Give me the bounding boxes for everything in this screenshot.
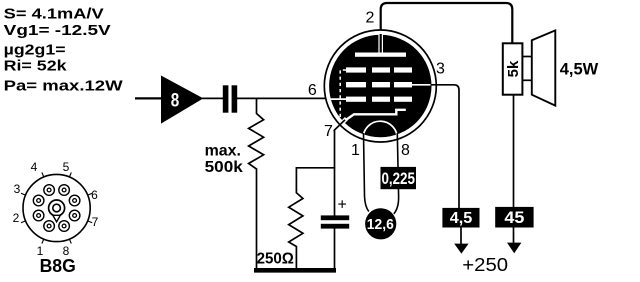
tube V1 internal black fill [329,35,431,137]
svg-text:4,5W: 4,5W [560,60,599,79]
svg-text:45: 45 [504,208,524,227]
svg-text:Ri= 52k: Ri= 52k [4,57,68,74]
heater filament arc [363,121,397,138]
svg-text:4: 4 [31,160,38,174]
socket pin 3 [33,195,44,206]
svg-text:7: 7 [92,215,99,229]
svg-text:Vg1= -12.5V: Vg1= -12.5V [4,22,111,39]
loudspeaker [532,30,556,105]
socket pin 8 [59,221,70,232]
wire capacitor to grid pin 6 [237,97,331,99]
wire below 4,5 box [460,228,462,246]
grid g1 dashes [346,97,412,102]
wire heater pin 8 down [394,133,399,214]
arrow screen supply [454,244,468,254]
current box 4,5 [442,208,479,228]
grid g3 dashes [346,67,412,72]
current box 45 [495,207,533,228]
svg-text:5k: 5k [505,60,522,77]
wire below 45 box [513,228,515,246]
tube V1 envelope [324,30,436,142]
svg-text:4,5: 4,5 [450,210,473,227]
svg-text:500k: 500k [205,159,243,176]
wire heater pin 1 down [364,133,369,212]
socket pin 4 [44,185,55,196]
socket tick marks [21,172,92,243]
svg-text:3: 3 [436,61,445,78]
wire cathode branch to 250 ohm resistor [296,168,335,190]
arrow anode supply [507,243,521,254]
anode lead pin 2 [380,34,382,53]
wire input stub [135,97,161,99]
wire capacitor C2 to rail [334,228,336,269]
cathode [344,110,406,121]
svg-text:µg2g1=: µg2g1= [4,41,66,58]
socket pin 2 [33,210,44,221]
svg-text:250Ω: 250Ω [257,251,294,268]
heater voltage circle 12,6 [365,208,396,239]
wire triangle to coupling capacitor [202,97,223,99]
svg-text:6: 6 [91,188,98,202]
socket pin 7 [69,210,80,221]
socket B8G outline [23,174,90,241]
heater current box 0,225 [381,167,417,189]
svg-text:+250: +250 [462,254,508,275]
wire cathode pin 7 down [334,131,336,217]
svg-text:Pa= max.12W: Pa= max.12W [4,78,124,95]
svg-text:0,225: 0,225 [381,169,415,188]
wire 5k to current box 45 [513,95,515,208]
svg-text:S= 4.1mA/V: S= 4.1mA/V [4,6,104,23]
cathode lead white channel [339,119,347,127]
cathode lead to pin 7 [334,120,345,131]
capacitor C1 coupling [223,85,237,112]
resistor 5k load box [503,43,523,94]
anode lead white channel [378,34,383,53]
ground rail [254,268,336,273]
capacitor C2 electrolytic [321,215,349,228]
resistor R2 250 ohm [289,189,303,269]
input transducer triangle 8 [161,76,203,124]
g1 lead from pin 6 [330,98,347,100]
wire anode pin 2 to top rail to 5k [381,3,513,53]
svg-text:8: 8 [401,142,410,159]
svg-text:2: 2 [366,10,375,27]
grid g2 dashes [346,82,412,87]
socket pin 1 [44,221,55,232]
svg-text:5: 5 [63,160,70,174]
socket pin 6 [69,195,80,206]
svg-text:2: 2 [13,211,20,225]
anode plate [355,53,406,57]
svg-text:8: 8 [171,89,180,111]
svg-text:+: + [338,197,347,214]
resistor R1 max.500k [249,99,264,269]
socket center spigot [49,200,65,222]
wire screen grid pin 3 to supply [431,85,460,208]
svg-text:7: 7 [324,123,333,140]
g3 cathode internal strap [340,70,346,117]
svg-text:3: 3 [14,182,21,196]
svg-text:12,6: 12,6 [367,216,394,233]
svg-text:max.: max. [205,142,241,159]
speaker connector stub lower [522,79,531,81]
svg-text:6: 6 [308,82,317,99]
svg-text:1: 1 [351,142,360,159]
g2 lead to pin 3 [411,84,431,86]
socket pin 5 [59,185,70,196]
svg-text:B8G: B8G [40,255,76,276]
speaker connector stub upper [522,56,531,58]
